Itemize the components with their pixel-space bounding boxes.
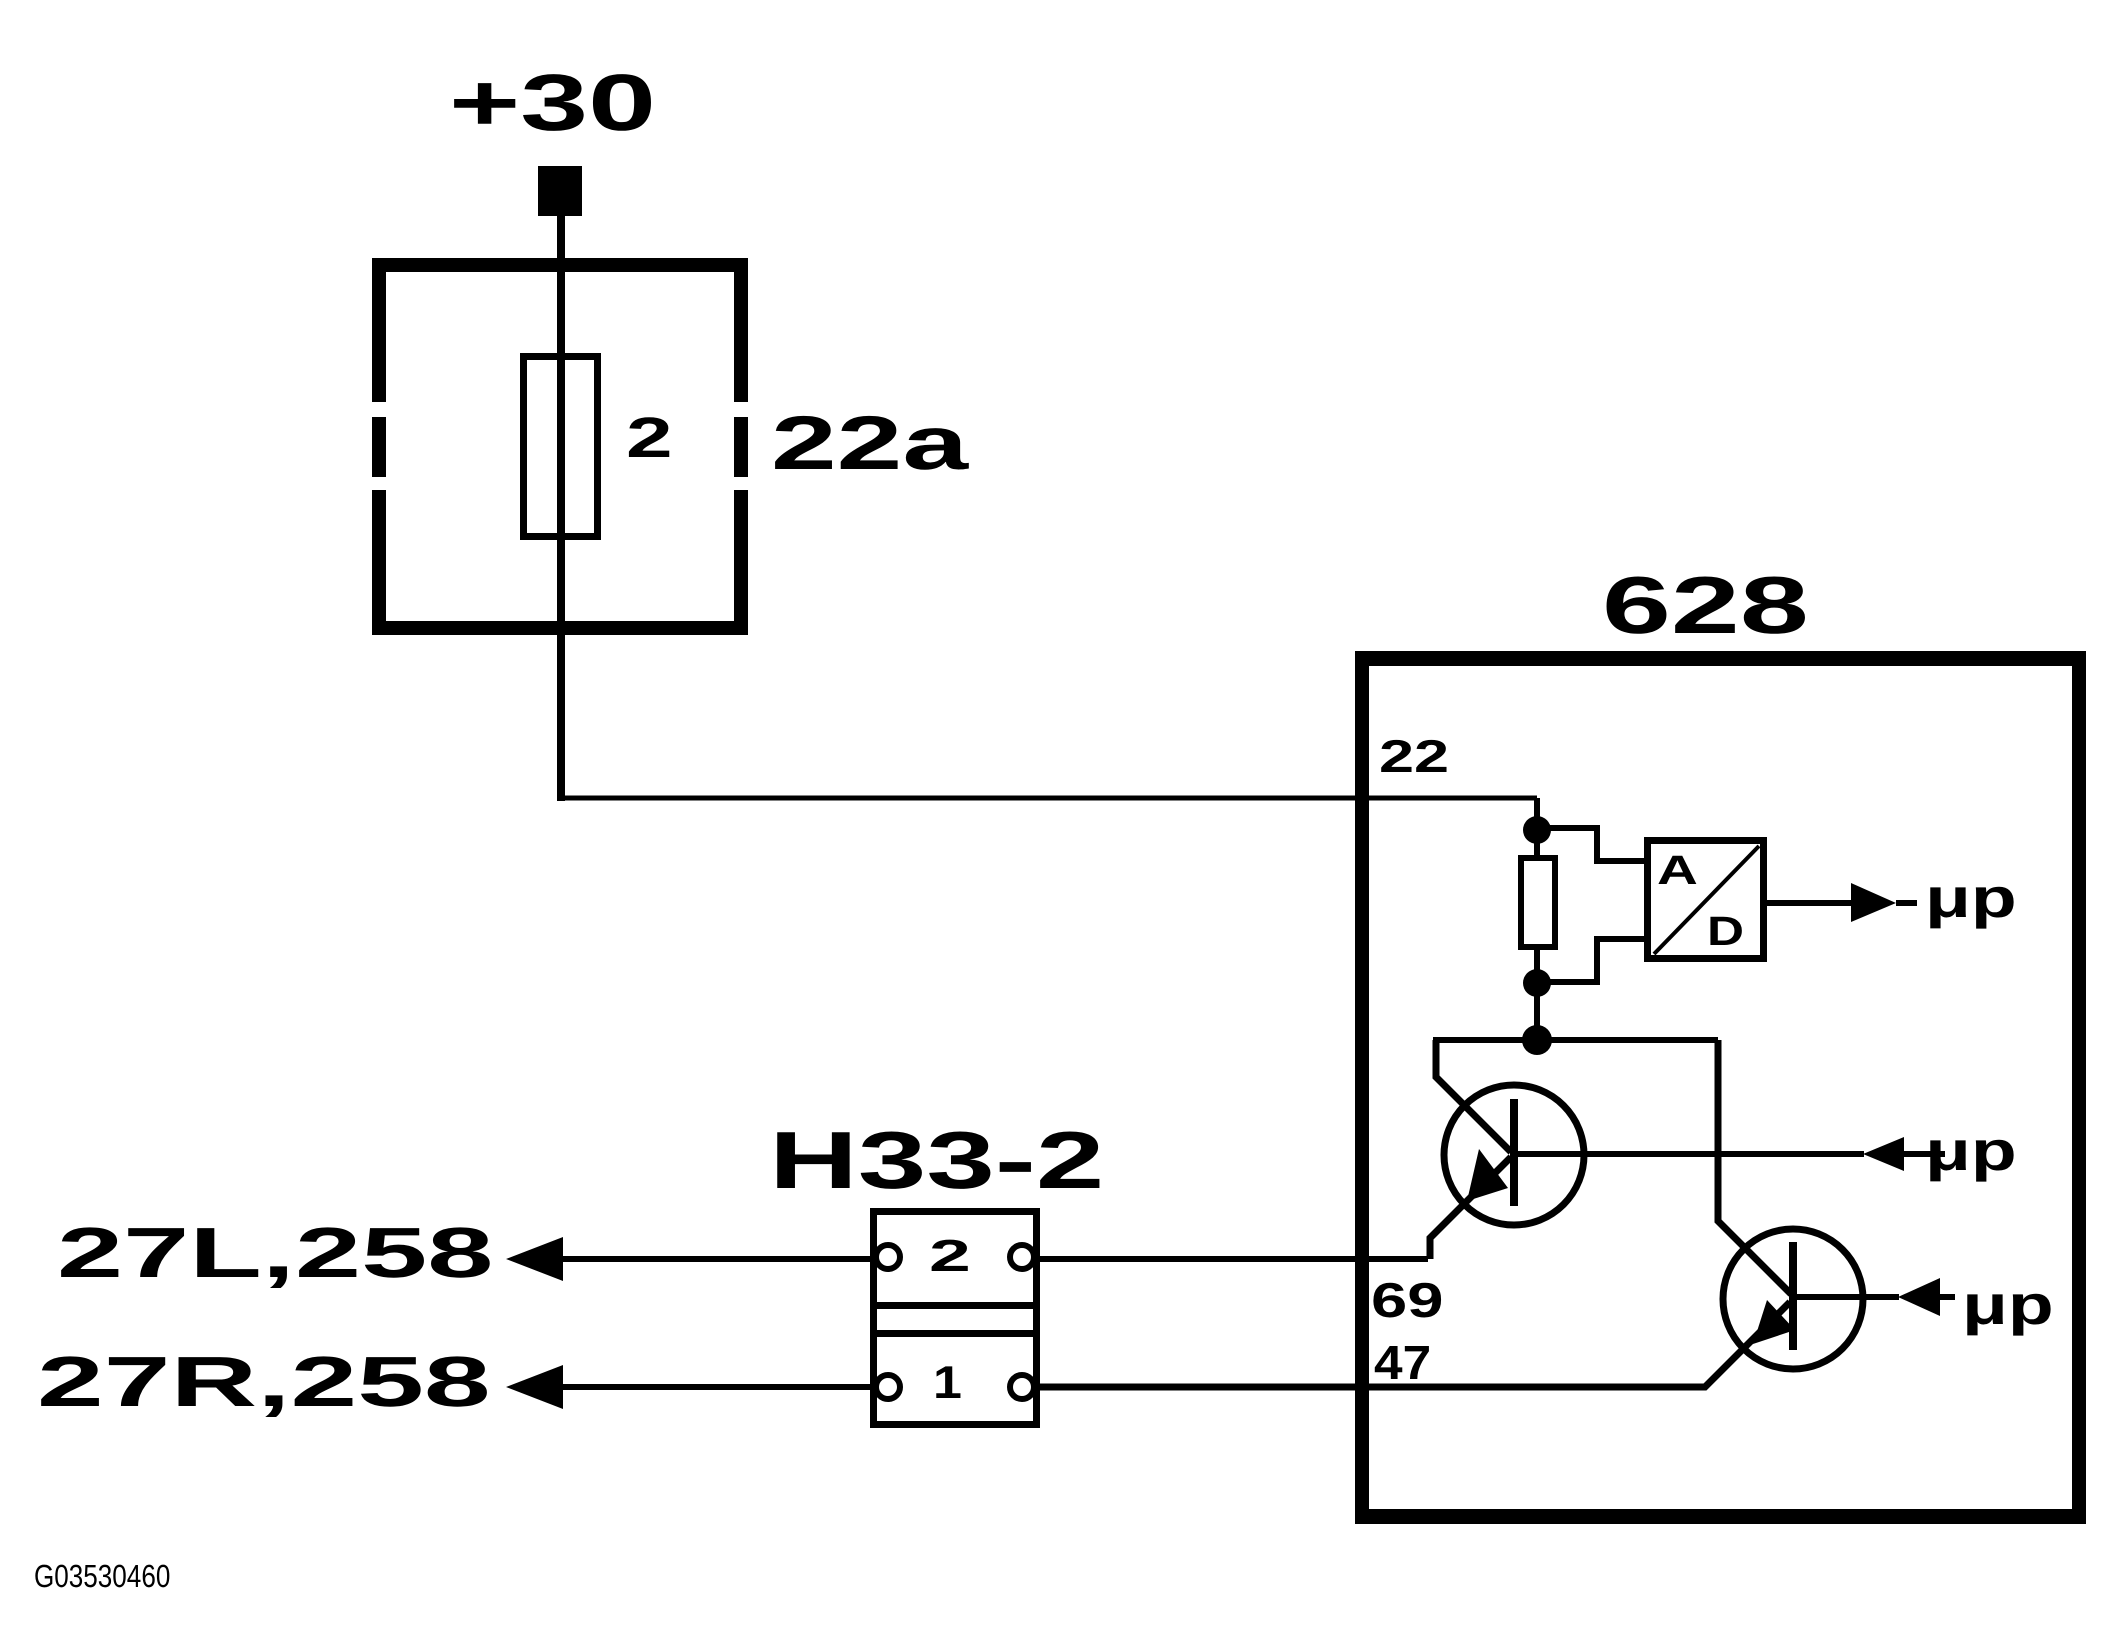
terminal square +30 xyxy=(538,166,582,216)
junction dot A xyxy=(1523,816,1551,844)
junction dot B xyxy=(1523,969,1551,997)
wire connector pin 2 to 27L arrow xyxy=(563,1256,876,1262)
control unit 628 box top xyxy=(1355,651,2086,666)
control unit 628 box right xyxy=(2072,651,2086,1524)
connector H33-2 box xyxy=(874,1212,1037,1425)
svg-text:D: D xyxy=(1707,908,1744,954)
svg-text:+30: +30 xyxy=(449,58,656,147)
wire junction B down to junction C xyxy=(1534,983,1540,1040)
transistor Q2 base bar xyxy=(1789,1242,1797,1350)
fuse box 22a dashed border left segments xyxy=(372,258,386,402)
wire A/D output to microprocessor xyxy=(1767,900,1852,906)
connector pin 2 left circle xyxy=(876,1245,900,1269)
fuse box 22a dashed border top xyxy=(372,258,748,272)
A/D converter diagonal xyxy=(1654,846,1759,954)
svg-text:H33-2: H33-2 xyxy=(769,1116,1104,1206)
control unit 628 box left xyxy=(1355,651,1369,1524)
svg-text:628: 628 xyxy=(1602,561,1809,651)
fuse box 22a dashed border bottom xyxy=(372,621,748,635)
svg-text:G03530460: G03530460 xyxy=(34,1558,170,1594)
svg-text:μp: μp xyxy=(1962,1273,2054,1336)
svg-text:2: 2 xyxy=(929,1230,971,1281)
connector pin 1 right circle xyxy=(1010,1375,1034,1399)
wire from +30 terminal down through fuse to corner xyxy=(557,216,565,801)
wire junction A to A/D converter upper input xyxy=(1537,828,1644,861)
transistor Q1 emitter arrow xyxy=(1467,1149,1508,1201)
svg-text:47: 47 xyxy=(1374,1337,1431,1390)
wire resistor to junction dot B xyxy=(1534,947,1540,983)
transistor Q1 circle xyxy=(1444,1085,1584,1225)
svg-text:69: 69 xyxy=(1371,1274,1444,1328)
wire junction C horizontal xyxy=(1433,1037,1718,1043)
arrowhead to microprocessor (right) xyxy=(1851,883,1896,922)
wire connector pin 1 to 27R arrow xyxy=(563,1384,876,1390)
resistor (shunt) xyxy=(1521,858,1555,947)
wire to transistor Q1 collector xyxy=(1436,1040,1511,1152)
connector pin 1 left circle xyxy=(876,1375,900,1399)
transistor Q2 circle xyxy=(1723,1229,1863,1369)
svg-text:μp: μp xyxy=(1925,866,2017,929)
transistor Q2 emitter wire xyxy=(1034,1302,1790,1387)
transistor Q2 base line xyxy=(1797,1294,1899,1300)
wire from fuse to control unit pin 22 xyxy=(561,796,1537,801)
control unit 628 box bottom xyxy=(1355,1509,2086,1524)
svg-text:22a: 22a xyxy=(771,401,969,486)
svg-text:1: 1 xyxy=(933,1356,962,1408)
transistor Q2 emitter arrow xyxy=(1753,1300,1795,1344)
junction dot C xyxy=(1522,1025,1552,1055)
wire junction A to resistor xyxy=(1534,830,1540,858)
transistor Q1 emitter wire xyxy=(1430,1157,1511,1259)
transistor Q1 base bar xyxy=(1510,1099,1518,1206)
arrowhead from microprocessor to Q1 base (left) xyxy=(1863,1137,1904,1171)
connector H33-2 divider lines xyxy=(870,1302,1040,1309)
wire junction C to transistor Q2 collector xyxy=(1718,1040,1791,1294)
svg-text:A: A xyxy=(1657,847,1698,893)
svg-text:2: 2 xyxy=(626,406,673,470)
svg-text:μp: μp xyxy=(1925,1119,2017,1182)
svg-text:27L,258: 27L,258 xyxy=(57,1214,493,1293)
svg-text:27R,258: 27R,258 xyxy=(37,1343,491,1422)
transistor Q1 base line xyxy=(1518,1151,1864,1157)
fuse box 22a dashed border right segments xyxy=(734,258,748,402)
svg-text:22: 22 xyxy=(1379,730,1449,782)
arrowhead to 27L,258 (left) xyxy=(506,1237,563,1281)
fuse F2 symbol xyxy=(524,357,598,537)
arrowhead to 27R,258 (left) xyxy=(506,1365,563,1409)
wire junction B to A/D converter lower input xyxy=(1537,939,1644,982)
connector pin 2 right circle xyxy=(1010,1245,1034,1269)
wire pin 69 to connector H33-2 pin 2 xyxy=(1034,1256,1428,1262)
arrowhead from microprocessor to Q2 base (left) xyxy=(1898,1278,1940,1316)
A/D converter U1 box xyxy=(1648,841,1764,959)
